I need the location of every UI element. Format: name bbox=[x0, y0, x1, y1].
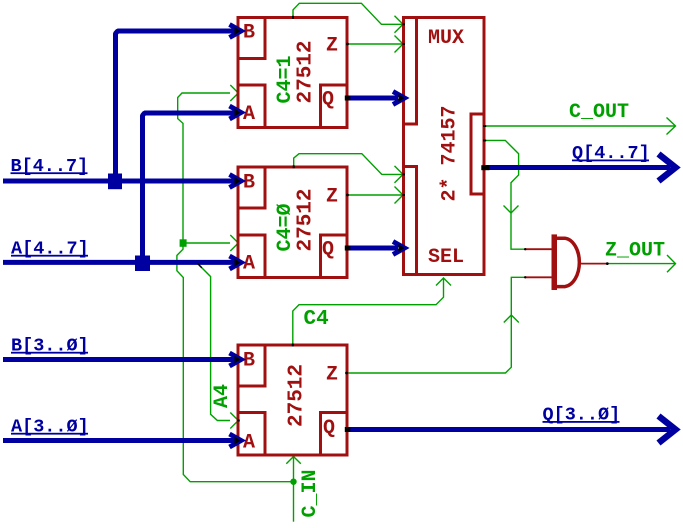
svg-text:Z: Z bbox=[326, 364, 338, 387]
svg-text:C_IN: C_IN bbox=[299, 469, 322, 517]
svg-text:A4: A4 bbox=[211, 384, 234, 408]
svg-text:A: A bbox=[243, 253, 255, 276]
svg-text:Q: Q bbox=[323, 417, 335, 440]
svg-text:C_OUT: C_OUT bbox=[569, 101, 629, 124]
svg-text:2* 74157: 2* 74157 bbox=[439, 105, 462, 201]
svg-text:A: A bbox=[243, 103, 255, 126]
svg-text:SEL: SEL bbox=[428, 246, 464, 269]
svg-text:B: B bbox=[243, 172, 255, 195]
svg-text:C4=Ø: C4=Ø bbox=[274, 203, 297, 251]
svg-text:MUX: MUX bbox=[428, 27, 464, 50]
svg-text:27512: 27512 bbox=[295, 188, 318, 251]
svg-text:B: B bbox=[243, 22, 255, 45]
svg-text:27512: 27512 bbox=[295, 40, 318, 103]
svg-text:B: B bbox=[243, 350, 255, 373]
svg-text:A: A bbox=[243, 432, 255, 455]
svg-text:C4: C4 bbox=[304, 308, 329, 331]
svg-text:27512: 27512 bbox=[286, 364, 309, 427]
svg-text:Q: Q bbox=[322, 239, 334, 262]
svg-text:Z: Z bbox=[326, 186, 338, 209]
svg-text:Z_OUT: Z_OUT bbox=[605, 240, 665, 263]
svg-text:Q: Q bbox=[322, 89, 334, 112]
svg-text:Z: Z bbox=[326, 35, 338, 58]
svg-text:C4=1: C4=1 bbox=[274, 55, 297, 103]
